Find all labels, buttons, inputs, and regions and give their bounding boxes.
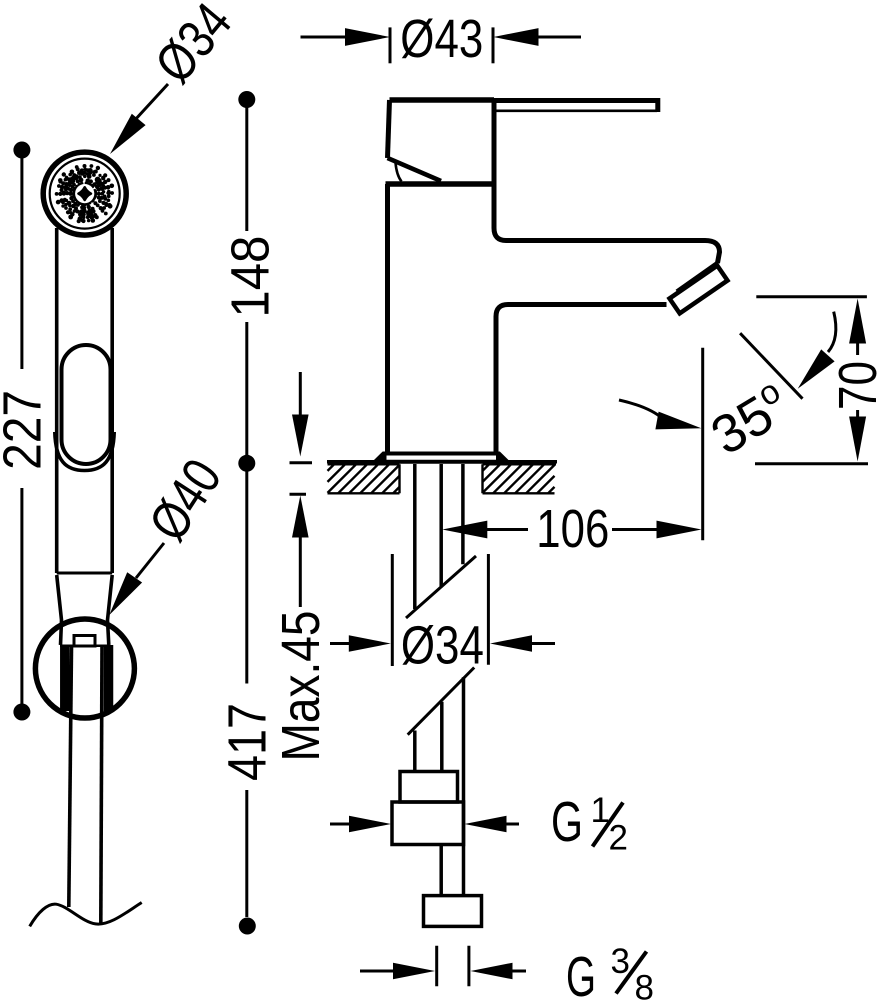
base flange — [375, 454, 508, 462]
counter hatch left — [328, 464, 400, 493]
svg-text:G: G — [566, 945, 596, 1000]
counter top line — [327, 460, 557, 464]
shank right line — [461, 464, 465, 564]
faucet handle notch arc — [396, 163, 402, 182]
dim 417 bottom dot — [239, 918, 256, 935]
handle bottom arc — [55, 432, 114, 471]
faucet body left edge — [385, 184, 390, 455]
label G half — [551, 790, 628, 858]
nozzle outlet rect — [74, 636, 95, 647]
faucet body right edge upper and spout top — [494, 184, 720, 263]
handle joint line — [57, 572, 112, 575]
spray head center diamond — [79, 187, 91, 200]
dim 106 right arrow — [657, 521, 702, 539]
dim O43 left arrow — [345, 28, 390, 46]
dim Max45 upper tick — [290, 461, 313, 464]
dim G half left arrow — [330, 823, 352, 826]
label G 3/8 — [566, 942, 654, 1000]
holder circle — [35, 619, 134, 718]
svg-text:G: G — [551, 790, 583, 854]
dim 148-417 line segments — [245, 100, 248, 232]
svg-text:227: 227 — [0, 390, 52, 470]
svg-text:70: 70 — [828, 361, 877, 410]
spout bottom and body right edge lower — [496, 305, 667, 456]
faucet handle notch diagonal — [388, 158, 442, 181]
lever bar top — [494, 98, 660, 103]
dim 70 top ext line — [756, 295, 867, 298]
shower handle left edge — [55, 228, 59, 573]
hose left edge — [69, 647, 72, 907]
spray face dots — [55, 164, 114, 223]
dim 106 line right — [612, 528, 658, 531]
dim 227 bottom dot — [13, 704, 30, 721]
pipe lines below break — [413, 731, 417, 772]
dim G38 left arrow — [360, 970, 397, 973]
vertical ref line at aerator — [701, 348, 704, 541]
hose right edge — [101, 647, 102, 925]
svg-text:8: 8 — [635, 969, 654, 1000]
shank left line — [413, 464, 417, 609]
svg-text:Ø43: Ø43 — [400, 9, 483, 69]
angle arc left — [619, 400, 663, 419]
faucet handle right edge — [492, 100, 497, 184]
dim 106 left arrow — [442, 521, 487, 539]
counter hatch right — [483, 464, 557, 493]
G three-eighth rect — [424, 896, 482, 927]
dim O34 shank ext lines — [392, 554, 488, 666]
dim 106 line left — [464, 528, 528, 531]
svg-text:148: 148 — [220, 236, 280, 318]
dim Max45 upper arrow — [299, 372, 302, 416]
dim O34 shank left arrow — [330, 642, 352, 645]
dim O43 ext tick left — [389, 27, 392, 63]
lever bar bottom — [496, 110, 657, 113]
G half lower rect — [392, 802, 464, 845]
dim G half right arrow — [504, 823, 519, 826]
dim shared middle dot — [238, 455, 255, 472]
G half upper rect — [400, 772, 458, 803]
holder cup right wall — [104, 645, 114, 711]
leader line for head dia — [134, 84, 168, 121]
handle slot capsule — [62, 345, 111, 464]
dim Max45 lower tick — [290, 493, 307, 496]
dim 227 line lower — [20, 488, 23, 712]
faucet handle left edge — [388, 100, 390, 158]
G three-eighth pipe — [439, 845, 443, 896]
leader arrowhead — [110, 114, 146, 154]
cup ledge lines — [60, 645, 110, 648]
dim 70 bottom ext line — [755, 462, 868, 465]
dim 70 bottom arrow — [856, 410, 859, 420]
dim O43 right arrow — [494, 28, 539, 46]
shower handle right edge — [110, 228, 114, 573]
dim 227 top dot — [13, 142, 30, 159]
handle taper — [57, 575, 62, 645]
spray head inner ring — [50, 159, 120, 229]
hose break squiggle — [30, 903, 142, 927]
shank break slash upper — [406, 556, 476, 618]
faucet body top line — [386, 181, 495, 187]
dim Max45 lower arrow — [292, 496, 309, 538]
leader line for holder dia — [136, 543, 164, 578]
shank middle line — [439, 464, 443, 588]
leader arrowhead holder — [109, 572, 142, 615]
dim O34 shank right arrow — [530, 642, 555, 645]
dim O43 ext tick right — [492, 27, 495, 63]
svg-text:Ø34: Ø34 — [401, 616, 484, 676]
spray head outer ring — [43, 152, 126, 235]
aerator housing edge — [677, 262, 719, 291]
dim G38 ext lines — [437, 946, 469, 987]
faucet handle top — [390, 97, 495, 103]
angle arc right — [828, 312, 836, 352]
dim 227 line upper — [20, 150, 23, 369]
svg-text:2: 2 — [609, 819, 628, 858]
dim 70 top arrow — [849, 299, 866, 344]
dim G38 right arrow — [510, 970, 526, 973]
aerator tip rect — [670, 266, 728, 314]
dim 148 top dot — [238, 91, 255, 108]
svg-text:417: 417 — [218, 703, 278, 781]
lever end cap — [655, 98, 660, 112]
holder cup left wall — [60, 645, 70, 711]
dim O43 line left — [301, 36, 347, 39]
svg-text:Max.45: Max.45 — [271, 611, 331, 762]
svg-text:106: 106 — [536, 499, 609, 559]
shank break slash lower — [408, 668, 475, 735]
angle ref diagonal — [740, 333, 802, 399]
